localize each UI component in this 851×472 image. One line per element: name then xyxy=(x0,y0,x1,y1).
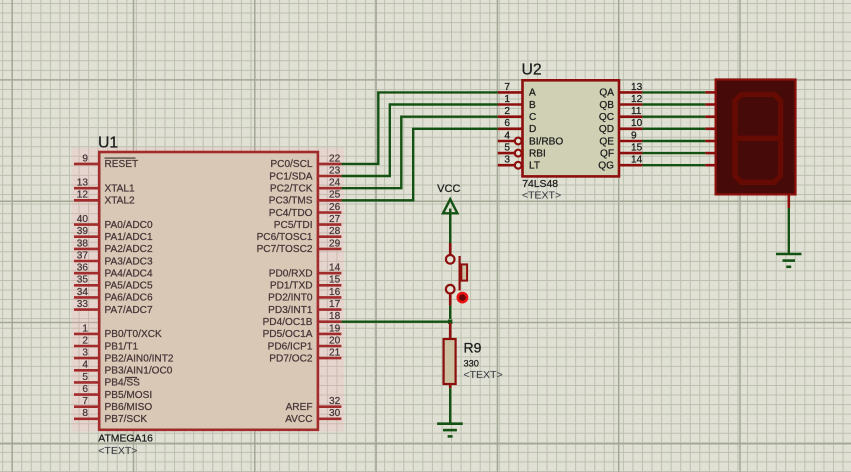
svg-text:1: 1 xyxy=(504,94,510,105)
wire U2.QG to display xyxy=(642,164,705,166)
resistor R9 bottom lead xyxy=(449,384,452,388)
svg-text:B: B xyxy=(529,100,536,111)
svg-text:3: 3 xyxy=(504,155,510,166)
push button SW (bottom lead) xyxy=(449,294,452,306)
svg-text:R9: R9 xyxy=(464,339,482,355)
U2 pin 14 (QG) xyxy=(598,155,642,172)
U1 pin 21 (PD7/OC2) xyxy=(269,348,341,365)
U2 pin 5 (RBI) xyxy=(498,143,546,160)
U2 pin 9 (QE) xyxy=(599,130,642,147)
display pin D xyxy=(705,128,715,131)
U1 pin 15 (PD1/TXD) xyxy=(270,275,342,292)
wire PC3/TMS to U2.D xyxy=(341,129,497,201)
U2 pin 7 (A) xyxy=(498,82,536,99)
svg-text:RBI: RBI xyxy=(529,148,546,159)
svg-text:74LS48: 74LS48 xyxy=(522,179,558,190)
U1 pin 28 (PC6/TOSC1) xyxy=(257,226,342,243)
svg-text:VCC: VCC xyxy=(437,183,460,195)
U1 pin 18 (PD4/OC1B) xyxy=(263,311,342,328)
wire PC1/SDA to U2.B xyxy=(341,105,497,177)
svg-text:13: 13 xyxy=(631,82,643,93)
svg-text:10: 10 xyxy=(631,118,643,129)
U1 pin 6 (PB5/MOSI) xyxy=(74,384,152,401)
display pin B xyxy=(705,103,715,106)
IC U1 selection highlight xyxy=(72,148,345,432)
U2 pin 11 (QC) xyxy=(599,106,643,123)
U2 pin 15 (QF) xyxy=(600,143,643,160)
U1 pin 19 (PD5/OC1A) xyxy=(263,323,342,340)
svg-text:QG: QG xyxy=(598,161,614,172)
display digit lower loop (segments c,d,e,g) xyxy=(735,138,781,182)
svg-text:QB: QB xyxy=(599,100,614,111)
wire U2.QC to display xyxy=(642,115,705,117)
U1 pin 14 (PD0/RXD) xyxy=(269,263,342,280)
U1 pin 16 (PD2/INT0) xyxy=(268,287,341,304)
resistor R9 body xyxy=(444,339,456,384)
wire U2.QE to display xyxy=(642,140,705,142)
U1 pin 33 (PA7/ADC7) xyxy=(74,299,153,316)
ground (below R9) xyxy=(437,424,463,437)
svg-text:A: A xyxy=(529,88,536,99)
push button SW (top lead) xyxy=(449,243,452,255)
svg-text:U2: U2 xyxy=(522,62,542,79)
U1 pin 32 (AREF) xyxy=(286,396,342,413)
U1 pin 39 (PA1/ADC1) xyxy=(74,226,153,243)
U1 pin 4 (PB3/AIN1/OC0) xyxy=(74,360,173,377)
svg-text:QA: QA xyxy=(599,88,614,99)
U2 pin 13 (QA) xyxy=(599,82,642,99)
svg-text:QC: QC xyxy=(599,112,614,123)
resistor R9 top lead xyxy=(449,323,452,339)
display common pin (bottom) xyxy=(787,194,790,208)
U1 pin 17 (PD3/INT1) xyxy=(268,299,341,316)
svg-text:D: D xyxy=(529,124,536,135)
U1 pin 13 (XTAL1) xyxy=(74,178,135,195)
U1 pin 20 (PD6/ICP1) xyxy=(268,335,342,352)
U2 pin 1 (B) xyxy=(498,94,536,111)
ground (below display) xyxy=(776,254,802,267)
U1 pin 23 (PC1/SDA) xyxy=(269,165,341,182)
svg-text:C: C xyxy=(529,112,536,123)
svg-text:15: 15 xyxy=(631,143,643,154)
junction node xyxy=(448,320,452,324)
U1 pin 35 (PA5/ADC5) xyxy=(74,275,153,292)
U2 pin 4 (BI/RBO) xyxy=(498,130,564,147)
svg-text:5: 5 xyxy=(504,143,510,154)
U1 pin 27 (PC5/TDI) xyxy=(274,214,342,231)
svg-text:4: 4 xyxy=(504,130,510,141)
svg-text:QD: QD xyxy=(599,124,614,135)
U2 pin 6 (D) xyxy=(498,118,537,135)
U1 pin 26 (PC4/TDO) xyxy=(269,202,342,219)
U1 pin 34 (PA6/ADC6) xyxy=(74,287,153,304)
display pin E xyxy=(705,140,715,143)
wire PC2/TCK to U2.C xyxy=(341,117,497,189)
svg-text:14: 14 xyxy=(631,155,643,166)
U2 pin 12 (QB) xyxy=(599,94,642,111)
IC U1 body (ATMEGA16) xyxy=(99,152,318,430)
wire display common to ground xyxy=(788,208,790,254)
wire U1.PD4 to junction xyxy=(341,321,450,323)
U1 pin 3 (PB2/AIN0/INT2) xyxy=(74,348,174,365)
svg-text:7: 7 xyxy=(504,82,510,93)
display pin C xyxy=(705,115,715,118)
U1 pin 8 (PB7/SCK) xyxy=(74,408,147,425)
svg-text:QE: QE xyxy=(599,136,614,147)
svg-text:11: 11 xyxy=(631,106,642,117)
U1 pin 1 (PB0/T0/XCK) xyxy=(74,323,162,340)
wire U2.QB to display xyxy=(642,103,705,105)
svg-text:2: 2 xyxy=(504,106,510,117)
U1 pin 9 (RESET) xyxy=(74,153,138,170)
svg-text:QF: QF xyxy=(600,148,614,159)
U1 pin 7 (PB6/MISO) xyxy=(74,396,152,413)
U2 pin 10 (QD) xyxy=(599,118,643,135)
display pin G xyxy=(705,164,715,167)
display pin F xyxy=(705,152,715,155)
push button actuator dot xyxy=(458,293,467,302)
U1 pin 29 (PC7/TOSC2) xyxy=(257,238,342,255)
U2 pin 3 (LT) xyxy=(498,155,540,172)
wire button to junction xyxy=(449,306,451,319)
svg-text:LT: LT xyxy=(529,161,540,172)
U1 pin 38 (PA2/ADC2) xyxy=(74,238,153,255)
U1 pin 40 (PA0/ADC0) xyxy=(74,214,153,231)
svg-text:ATMEGA16: ATMEGA16 xyxy=(98,433,153,444)
wire VCC to button xyxy=(449,209,451,243)
U1 pin 22 (PC0/SCL) xyxy=(270,153,341,170)
svg-text:12: 12 xyxy=(631,94,643,105)
svg-text:<TEXT>: <TEXT> xyxy=(464,369,503,381)
U1 pin 25 (PC3/TMS) xyxy=(269,190,342,207)
svg-text:330: 330 xyxy=(464,359,479,369)
U1 pin 12 (XTAL2) xyxy=(74,190,135,207)
7-segment display body xyxy=(716,80,796,195)
svg-text:<TEXT>: <TEXT> xyxy=(522,189,561,201)
wire R9 to ground xyxy=(449,388,451,423)
svg-text:BI/RBO: BI/RBO xyxy=(529,136,563,147)
wire PC0/SCL to U2.A xyxy=(341,92,497,163)
svg-text:<TEXT>: <TEXT> xyxy=(98,445,137,457)
U1 pin 24 (PC2/TCK) xyxy=(270,178,342,195)
wire U2.QD to display xyxy=(642,128,705,130)
power symbol VCC arrow xyxy=(443,199,457,213)
U1 pin 36 (PA4/ADC4) xyxy=(74,263,153,280)
U1 pin 30 (AVCC) xyxy=(285,408,341,425)
push button SW contacts xyxy=(446,255,467,294)
U1 pin 37 (PA3/ADC3) xyxy=(74,250,153,267)
U1 pin 2 (PB1/T1) xyxy=(74,335,139,352)
svg-text:6: 6 xyxy=(504,118,510,129)
U2 pin 2 (C) xyxy=(498,106,537,123)
wire U2.QA to display xyxy=(642,91,705,93)
display pin A xyxy=(705,91,715,94)
svg-text:9: 9 xyxy=(631,130,637,141)
IC U2 body (74LS48) xyxy=(523,80,620,176)
display digit upper loop (segments a,b,f,g) xyxy=(735,94,781,138)
U1 pin 5 (PB4/SS) xyxy=(74,372,140,389)
wire U2.QF to display xyxy=(642,152,705,154)
